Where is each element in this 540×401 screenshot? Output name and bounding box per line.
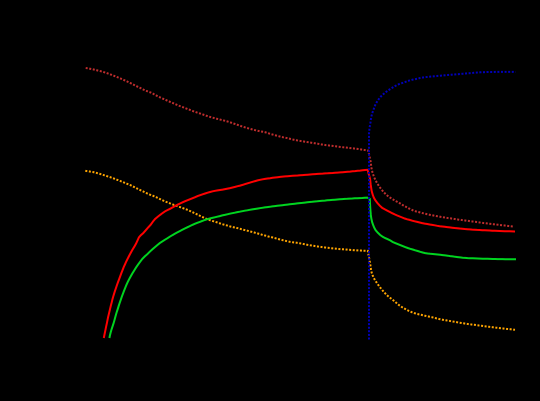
curve: blue dotted (step rise at transition) xyxy=(369,72,516,340)
curve: green solid xyxy=(109,198,516,338)
curve: orange dotted (equilibrium lower) xyxy=(85,171,515,330)
curve: dark-red dotted (equilibrium upper) xyxy=(86,68,514,227)
curve: red solid xyxy=(104,170,515,338)
